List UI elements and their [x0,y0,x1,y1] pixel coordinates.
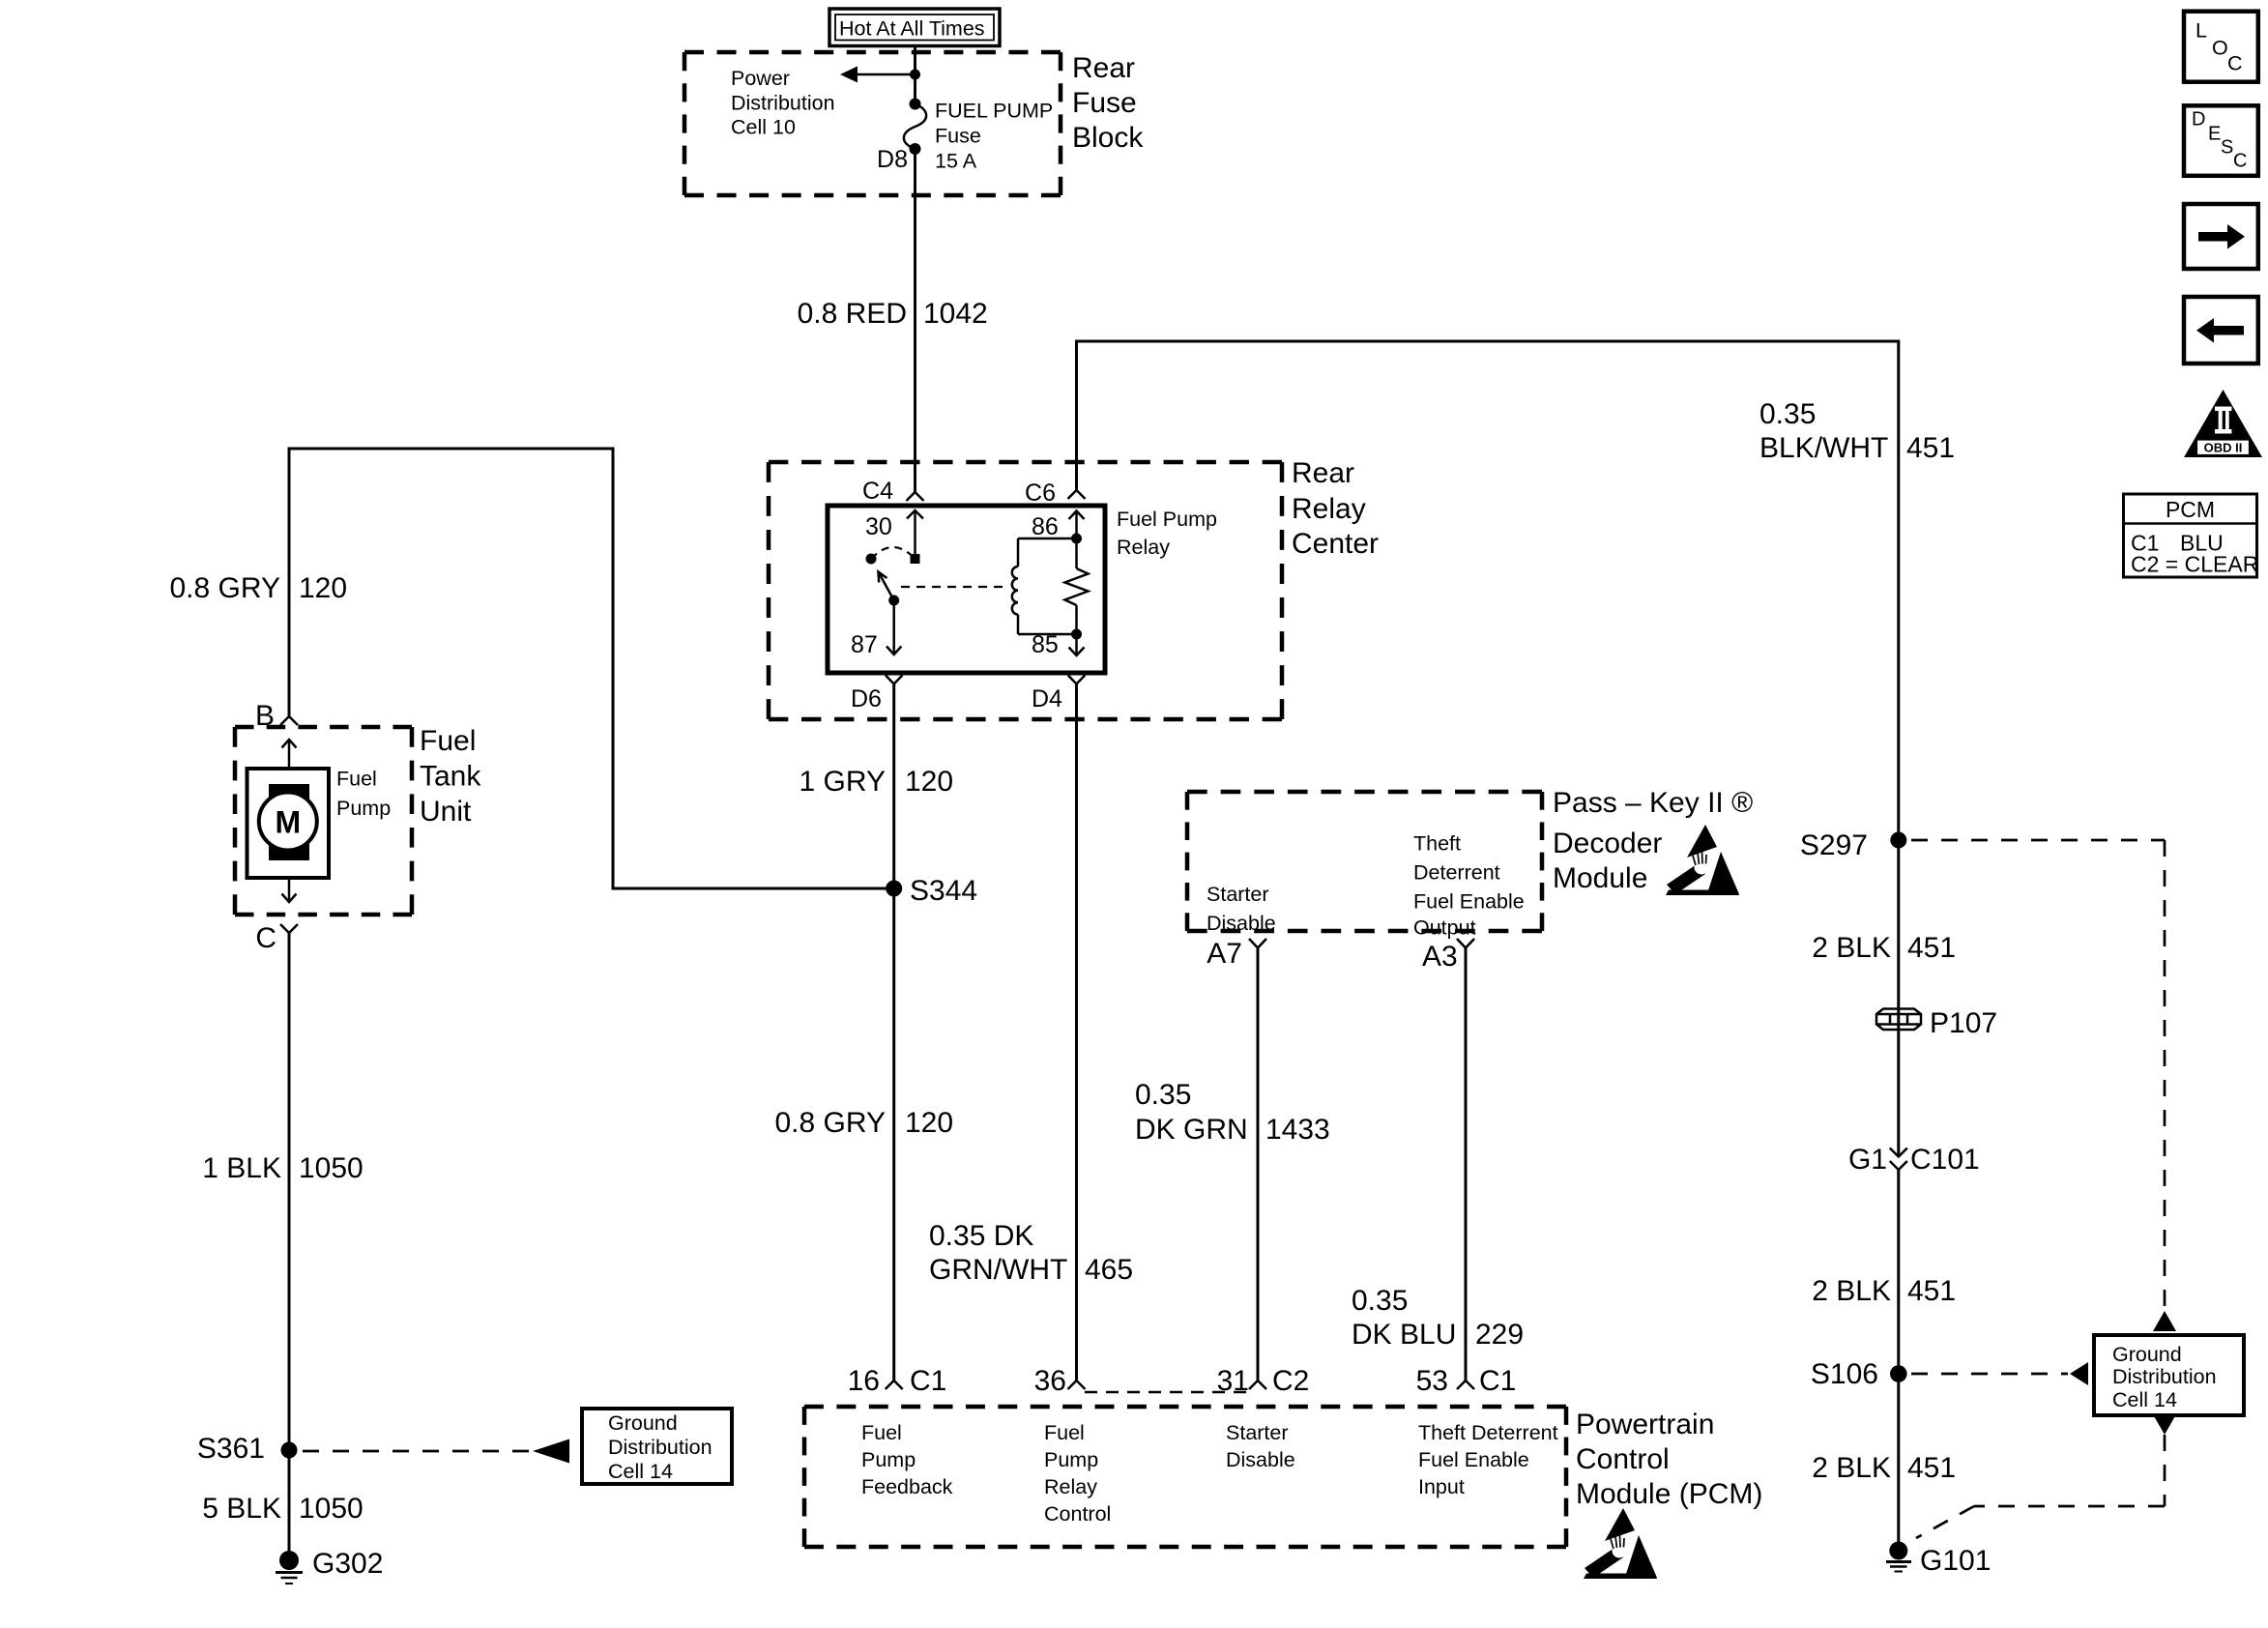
svg-text:451: 451 [1907,932,1956,964]
svg-text:0.8 GRY: 0.8 GRY [774,1107,886,1139]
PCM connector legend box [2124,494,2259,577]
svg-text:Disable: Disable [1207,912,1276,935]
relay switch dashed travel arc [871,547,916,559]
svg-text:Decoder: Decoder [1553,828,1662,859]
motor brush bottom [269,844,309,860]
svg-text:30: 30 [865,513,892,540]
svg-text:Hot At All Times: Hot At All Times [839,17,985,41]
svg-text:Feedback: Feedback [861,1475,953,1498]
dashed connector boundary pin 36 to pin 31 [1085,1391,1248,1394]
svg-text:Cell 14: Cell 14 [2112,1388,2177,1411]
svg-text:Fuel: Fuel [336,768,377,791]
label 0.35 DK GRN/WHT | 465 [929,1220,1133,1286]
svg-text:Relay: Relay [1117,536,1170,559]
relay switch common contact dot [911,554,920,564]
svg-text:G302: G302 [312,1548,383,1580]
Rear Relay Center label [1292,457,1379,560]
svg-text:Fuel Pump: Fuel Pump [1117,508,1217,531]
splice S106 [1811,1358,1907,1390]
svg-text:Pump: Pump [336,797,391,820]
fuel pump motor box [247,769,330,878]
connector B [280,716,298,725]
svg-text:Fuel: Fuel [420,725,476,757]
Fuel Pump Relay label [1117,508,1217,559]
junction dot coil bottom [1071,629,1082,640]
svg-text:5 BLK: 5 BLK [202,1493,281,1525]
svg-text:OBD II: OBD II [2204,441,2243,455]
svg-text:Rear: Rear [1292,457,1354,489]
svg-text:Module (PCM): Module (PCM) [1576,1478,1762,1510]
fuel pump return arrow (down) [282,878,297,902]
Ground Distribution Cell 14 box (right) [2094,1335,2244,1415]
svg-text:Fuse: Fuse [1072,87,1137,119]
wire relay 85 (D4) down to PCM pin 36 [1075,684,1078,1381]
svg-text:Unit: Unit [420,796,472,828]
svg-text:Deterrent: Deterrent [1413,861,1500,885]
svg-text:DK GRN: DK GRN [1135,1114,1248,1146]
dashed reference S106 to Ground Distribution (right) [1911,1362,2088,1385]
svg-text:1 GRY: 1 GRY [800,766,887,798]
svg-text:Power: Power [731,67,790,90]
svg-text:S297: S297 [1800,829,1868,861]
connector D6 [886,676,902,684]
svg-text:1042: 1042 [923,298,988,330]
svg-text:2 BLK: 2 BLK [1812,1275,1891,1307]
left arrow reference box [2184,297,2258,363]
PCM pin 16 C1 [848,1365,947,1397]
relay coil top rail [1018,538,1077,540]
svg-text:1 BLK: 1 BLK [202,1152,281,1184]
Fuel Tank Unit label [420,725,481,828]
svg-text:A7: A7 [1207,938,1242,970]
svg-text:C: C [2227,52,2243,75]
svg-text:0.35: 0.35 [1759,398,1816,430]
label FUEL PUMP Fuse 15 A [935,100,1053,173]
svg-text:1433: 1433 [1265,1114,1330,1146]
svg-text:451: 451 [1907,1275,1956,1307]
wire: battery feed from Hot At All Times into fuse block [914,45,916,104]
svg-text:S106: S106 [1811,1358,1878,1390]
svg-text:1050: 1050 [299,1493,363,1525]
svg-text:Cell 10: Cell 10 [731,116,796,139]
Power Distribution Cell 10 label [731,67,835,139]
Starter Disable label (decoder) [1207,883,1276,935]
label 2 BLK | 451 (upper) [1812,932,1956,964]
svg-text:Fuse: Fuse [935,125,981,148]
svg-text:Control: Control [1576,1443,1670,1475]
svg-text:Starter: Starter [1207,883,1269,906]
svg-text:GRN/WHT: GRN/WHT [929,1254,1067,1286]
relay terminal 85 arrow (down) [1069,605,1085,655]
svg-text:Output: Output [1413,916,1476,940]
svg-text:Ground: Ground [2112,1343,2182,1366]
svg-text:M: M [275,805,301,840]
svg-text:120: 120 [905,766,953,798]
OBD II symbol [2184,390,2262,457]
svg-text:Block: Block [1072,122,1144,154]
Fuel Pump label (tank) [336,768,391,821]
svg-text:C6: C6 [1025,480,1056,507]
svg-text:0.8 RED: 0.8 RED [798,298,907,330]
relay switch pivot dot [888,596,899,606]
svg-text:120: 120 [299,572,347,604]
Powertrain Control Module dashed box [804,1407,1566,1547]
wire fuel tank C down to G302 [288,933,291,1552]
svg-text:Powertrain: Powertrain [1576,1409,1714,1440]
relay terminal 87 arrow (down) [887,600,901,654]
connector C6 [1068,490,1086,499]
svg-text:Control: Control [1044,1502,1111,1526]
fuel pump relay box [828,506,1105,673]
ground G101 [1886,1542,1991,1578]
Rear Relay Center dashed box [769,462,1282,719]
label 2 BLK | 451 (middle) [1812,1275,1956,1307]
label 1 BLK | 1050 [202,1152,363,1184]
svg-text:Fuel Enable: Fuel Enable [1418,1448,1529,1471]
svg-text:C2: C2 [1272,1365,1309,1397]
svg-text:DK BLU: DK BLU [1352,1319,1456,1351]
Fuel Pump Feedback label [861,1421,953,1498]
Pass-Key II Decoder Module dashed box [1187,792,1542,931]
svg-text:BLK/WHT: BLK/WHT [1759,432,1888,464]
relay switch arm with arrowhead [879,572,894,601]
svg-text:Distribution: Distribution [608,1436,712,1459]
relay coil bottom rail [1018,633,1077,636]
junction dot coil top [1071,534,1082,544]
wire from fuel tank B up and over to S344 [289,449,887,888]
svg-text:36: 36 [1034,1365,1066,1397]
Hot At All Times box [829,9,1000,46]
svg-text:2 BLK: 2 BLK [1812,1452,1891,1484]
svg-text:Tank: Tank [420,761,481,793]
svg-text:229: 229 [1475,1319,1524,1351]
label 0.8 GRY | 120 (left) [169,572,347,604]
dashed reference S297 to Ground Distribution (right) [1911,840,2176,1331]
dashed reference Ground Distribution (right) to G101 [1916,1414,2176,1538]
svg-text:D4: D4 [1032,685,1062,712]
svg-text:86: 86 [1032,513,1059,540]
svg-text:O: O [2212,37,2228,60]
svg-text:C: C [255,922,276,954]
connector A3 [1457,939,1474,948]
connector A7 [1249,939,1266,948]
svg-text:Pump: Pump [861,1448,916,1471]
dashed reference S361 to Ground Distribution [303,1439,569,1464]
svg-text:D8: D8 [877,146,908,173]
svg-text:Pass – Key II ®: Pass – Key II ® [1553,787,1753,819]
connector C [280,924,298,933]
Pass-Key II Decoder Module label [1553,787,1753,894]
connector G1 / C101 [1848,1144,1980,1176]
relay coil [1012,538,1018,634]
svg-text:451: 451 [1906,432,1955,464]
top-right horizontal wire from C6 column to right ground column [1077,341,1899,832]
svg-text:S: S [2221,136,2233,158]
svg-text:D: D [2192,108,2205,130]
svg-text:Disable: Disable [1226,1448,1295,1471]
label 0.35 DK BLU | 229 [1352,1285,1524,1351]
svg-text:C1: C1 [1479,1365,1516,1397]
svg-text:15 A: 15 A [935,150,977,173]
Powertrain Control Module (PCM) label [1576,1409,1762,1510]
wire relay 87 (D6) down to PCM pin 16 [892,684,895,1381]
PCM pin 53 C1 [1416,1365,1517,1397]
svg-text:Cell 14: Cell 14 [608,1460,673,1483]
svg-text:53: 53 [1416,1365,1448,1397]
Rear Fuse Block dashed box [684,52,1061,195]
svg-text:31: 31 [1217,1365,1249,1397]
svg-text:FUEL PUMP: FUEL PUMP [935,100,1053,123]
grommet P107 [1876,1007,1997,1039]
svg-text:S361: S361 [197,1433,265,1465]
svg-text:A3: A3 [1422,941,1458,973]
svg-text:Distribution: Distribution [731,91,835,114]
svg-text:D6: D6 [851,685,882,712]
svg-text:Theft: Theft [1413,832,1461,856]
svg-text:Fuel: Fuel [861,1421,902,1444]
svg-text:Fuel Enable: Fuel Enable [1413,890,1525,914]
ESD warning symbol (decoder module) [1666,825,1739,895]
svg-text:C4: C4 [862,478,893,505]
motor circle M [259,793,317,851]
svg-text:Fuel: Fuel [1044,1421,1085,1444]
relay terminal 86 arrow (up) [1069,511,1085,569]
svg-text:Relay: Relay [1292,493,1366,525]
PCM pin 36 [1034,1365,1086,1397]
ground G302 [276,1548,383,1584]
svg-text:2 BLK: 2 BLK [1812,932,1891,964]
svg-text:Theft Deterrent: Theft Deterrent [1418,1421,1558,1444]
label 0.8 GRY | 120 (center) [774,1107,953,1139]
svg-text:465: 465 [1085,1254,1133,1286]
svg-text:P107: P107 [1930,1007,1997,1039]
svg-text:L: L [2195,19,2207,43]
svg-text:120: 120 [905,1107,953,1139]
Theft Deterrent Fuel Enable Output label (decoder) [1413,832,1525,940]
Ground Distribution Cell 14 box (left) [582,1409,732,1484]
connector D4 [1068,676,1085,684]
svg-text:16: 16 [848,1365,880,1397]
wire A3 down to PCM pin 53 [1465,948,1468,1381]
svg-text:G1: G1 [1848,1144,1887,1176]
svg-text:87: 87 [851,631,878,658]
label 0.35 DK GRN | 1433 [1135,1079,1330,1146]
svg-text:Input: Input [1418,1475,1465,1498]
svg-text:C2 = CLEAR: C2 = CLEAR [2131,552,2258,577]
label 0.8 RED | 1042 [798,298,988,330]
Fuel Tank Unit dashed box [235,727,412,915]
relay suppression resistor [1065,568,1089,605]
motor brush top [269,784,309,799]
svg-text:Starter: Starter [1226,1421,1289,1444]
svg-text:0.35: 0.35 [1352,1285,1408,1317]
svg-text:0.35: 0.35 [1135,1079,1191,1111]
svg-text:S344: S344 [910,875,977,907]
svg-text:0.35 DK: 0.35 DK [929,1220,1033,1252]
DESC reference box [2184,105,2258,176]
svg-text:C: C [2233,150,2247,171]
relay terminal 30 arrow (up) [907,510,923,559]
label 5 BLK | 1050 [202,1493,363,1525]
fuel pump feed arrow (up) [282,740,297,769]
svg-text:Distribution: Distribution [2112,1365,2217,1388]
svg-text:PCM: PCM [2166,497,2215,522]
right arrow reference box [2184,204,2258,269]
svg-text:1050: 1050 [299,1152,363,1184]
svg-text:451: 451 [1907,1452,1956,1484]
relay coil actuation dashed line [901,586,1006,588]
splice S297 [1800,829,1906,861]
wire 0.8 RED 1042 from fuse to relay C4 [914,149,916,492]
fuse FUEL PUMP 15 A [904,99,926,156]
svg-text:C101: C101 [1910,1144,1980,1176]
relay switch stationary contact dot [866,554,877,565]
svg-text:E: E [2208,123,2221,144]
svg-text:Module: Module [1553,862,1647,894]
PCM pin 31 C2 [1217,1365,1310,1397]
Rear Fuse Block label [1072,52,1144,154]
wire A7 down to PCM pin 31 [1257,948,1260,1381]
svg-text:Rear: Rear [1072,52,1135,84]
right ground wire S297 to G101 [1897,832,1900,1157]
Fuel Pump Relay Control label [1044,1421,1111,1526]
wire: arrow to Power Distribution Cell 10 [840,67,916,83]
svg-text:G101: G101 [1920,1545,1991,1577]
svg-text:Center: Center [1292,528,1379,560]
svg-text:Pump: Pump [1044,1448,1098,1471]
Theft Deterrent Fuel Enable Input label (PCM) [1418,1421,1558,1498]
svg-text:C1: C1 [910,1365,946,1397]
svg-text:Relay: Relay [1044,1475,1097,1498]
LOC reference box [2184,12,2258,82]
ESD warning symbol (PCM) [1584,1508,1657,1579]
splice S344 [886,875,977,907]
svg-text:Ground: Ground [608,1411,678,1435]
Starter Disable label (PCM) [1226,1421,1295,1471]
junction dot at fuse feed [910,70,920,80]
connector C4 [907,492,924,501]
splice S361 [197,1433,298,1465]
label 1 GRY | 120 [800,766,954,798]
svg-text:0.8 GRY: 0.8 GRY [169,572,280,604]
label 0.35 BLK/WHT | 451 [1759,398,1955,464]
label 2 BLK | 451 (lower) [1812,1452,1956,1484]
